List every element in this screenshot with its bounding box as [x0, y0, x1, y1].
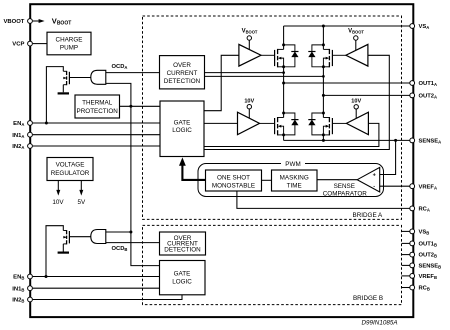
svg-text:LOGIC: LOGIC	[172, 127, 192, 134]
svg-text:ENA: ENA	[13, 121, 24, 127]
svg-text:VCP: VCP	[12, 42, 24, 48]
svg-text:DETECTION: DETECTION	[164, 78, 201, 85]
svg-text:+: +	[373, 173, 376, 179]
svg-text:MASKING: MASKING	[280, 175, 309, 182]
svg-text:GATE: GATE	[174, 119, 191, 126]
svg-text:5V: 5V	[77, 199, 86, 206]
svg-text:RCB: RCB	[419, 286, 430, 292]
svg-text:MONOSTABLE: MONOSTABLE	[212, 183, 255, 190]
svg-text:GATE: GATE	[174, 271, 191, 278]
svg-text:THERMAL: THERMAL	[82, 100, 113, 107]
svg-text:ONE SHOT: ONE SHOT	[217, 175, 250, 182]
svg-text:PROTECTION: PROTECTION	[77, 108, 119, 115]
svg-text:VOLTAGE: VOLTAGE	[56, 161, 85, 168]
svg-text:OUT1A: OUT1A	[419, 81, 438, 87]
svg-text:PWM: PWM	[285, 161, 300, 168]
svg-text:PUMP: PUMP	[60, 45, 78, 52]
svg-text:VSA: VSA	[419, 24, 430, 30]
svg-text:-: -	[373, 183, 375, 189]
svg-text:IN2B: IN2B	[12, 298, 24, 304]
svg-text:LOGIC: LOGIC	[172, 279, 192, 286]
svg-text:IN1B: IN1B	[12, 286, 24, 292]
svg-text:RCA: RCA	[419, 207, 430, 213]
svg-text:10V: 10V	[244, 99, 254, 105]
svg-text:OUT1B: OUT1B	[419, 242, 438, 248]
svg-text:OUT2A: OUT2A	[419, 94, 438, 100]
svg-text:VBOOT: VBOOT	[242, 29, 258, 35]
svg-text:ENB: ENB	[13, 275, 24, 281]
svg-text:CHARGE: CHARGE	[56, 37, 83, 44]
svg-text:D99IN1085A: D99IN1085A	[361, 319, 397, 326]
svg-text:VSB: VSB	[419, 230, 430, 236]
svg-text:OVER: OVER	[173, 62, 191, 69]
svg-text:REGULATOR: REGULATOR	[51, 170, 90, 177]
svg-text:SENSEB: SENSEB	[419, 264, 442, 270]
svg-text:IN1A: IN1A	[12, 133, 24, 139]
svg-text:IN2A: IN2A	[12, 144, 24, 150]
svg-text:OCDA: OCDA	[112, 64, 128, 70]
svg-text:SENSEA: SENSEA	[419, 139, 442, 145]
svg-text:BRIDGE B: BRIDGE B	[353, 295, 383, 302]
svg-text:TIME: TIME	[287, 183, 302, 190]
svg-text:COMPARATOR: COMPARATOR	[323, 191, 368, 198]
svg-text:SENSE: SENSE	[334, 183, 355, 190]
svg-text:OUT2B: OUT2B	[419, 253, 438, 259]
svg-text:10V: 10V	[351, 99, 361, 105]
svg-text:DETECTION: DETECTION	[164, 247, 201, 254]
svg-text:BRIDGE A: BRIDGE A	[353, 212, 384, 219]
svg-text:VBOOT: VBOOT	[3, 19, 24, 25]
svg-text:10V: 10V	[52, 199, 64, 206]
svg-text:VREFB: VREFB	[419, 274, 438, 280]
svg-text:VREFA: VREFA	[419, 184, 438, 190]
svg-text:OCDB: OCDB	[112, 246, 128, 252]
svg-text:CURRENT: CURRENT	[167, 70, 198, 77]
svg-text:VBOOT: VBOOT	[348, 29, 364, 35]
